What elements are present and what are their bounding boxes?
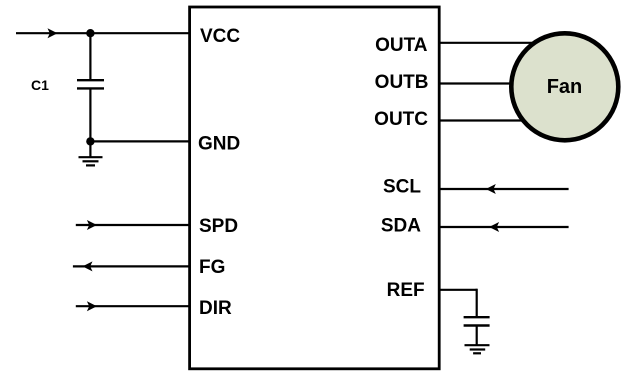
svg-text:SCL: SCL <box>383 176 421 197</box>
fan motor <box>511 33 618 140</box>
wire FG output <box>73 265 190 267</box>
svg-text:FG: FG <box>199 257 225 278</box>
junction GND/C1 <box>86 137 94 145</box>
ground (REF) <box>465 345 490 353</box>
svg-text:REF: REF <box>387 280 425 301</box>
arrow SPD input <box>87 220 97 230</box>
svg-text:GND: GND <box>198 134 240 155</box>
IC U1 <box>190 7 440 369</box>
junction VCC/C1 <box>86 29 94 37</box>
svg-text:SPD: SPD <box>199 216 238 237</box>
wire DIR input <box>76 305 190 307</box>
svg-text:DIR: DIR <box>199 298 232 319</box>
wire SDA input <box>439 226 568 228</box>
wire OUTB <box>439 82 515 84</box>
arrow SCL input <box>486 184 496 194</box>
svg-text:OUTA: OUTA <box>375 35 428 56</box>
svg-text:OUTB: OUTB <box>375 72 429 93</box>
arrow VCC input <box>48 28 58 38</box>
capacitor (REF bypass) <box>464 317 490 325</box>
wire REF cap to ground <box>476 326 478 346</box>
wire C1 top lead <box>89 33 91 80</box>
svg-text:OUTC: OUTC <box>374 109 428 130</box>
wire SPD input <box>76 224 190 226</box>
wire REF horizontal <box>439 289 476 291</box>
wire OUTA <box>439 42 540 44</box>
arrow SDA input <box>489 222 499 232</box>
wire C1 bottom lead <box>89 88 91 141</box>
svg-text:C1: C1 <box>31 77 49 93</box>
wire REF vertical <box>476 289 478 318</box>
wire SCL input <box>439 188 568 190</box>
arrow FG output <box>83 261 93 271</box>
ground (C1/GND) <box>79 141 103 165</box>
wire GND <box>90 140 189 142</box>
svg-text:Fan: Fan <box>547 76 583 98</box>
wire VCC input <box>16 32 190 34</box>
wire OUTC <box>439 119 528 121</box>
svg-text:VCC: VCC <box>200 26 240 47</box>
svg-text:SDA: SDA <box>381 216 421 237</box>
capacitor C1 <box>77 80 104 88</box>
arrow DIR input <box>87 301 97 311</box>
